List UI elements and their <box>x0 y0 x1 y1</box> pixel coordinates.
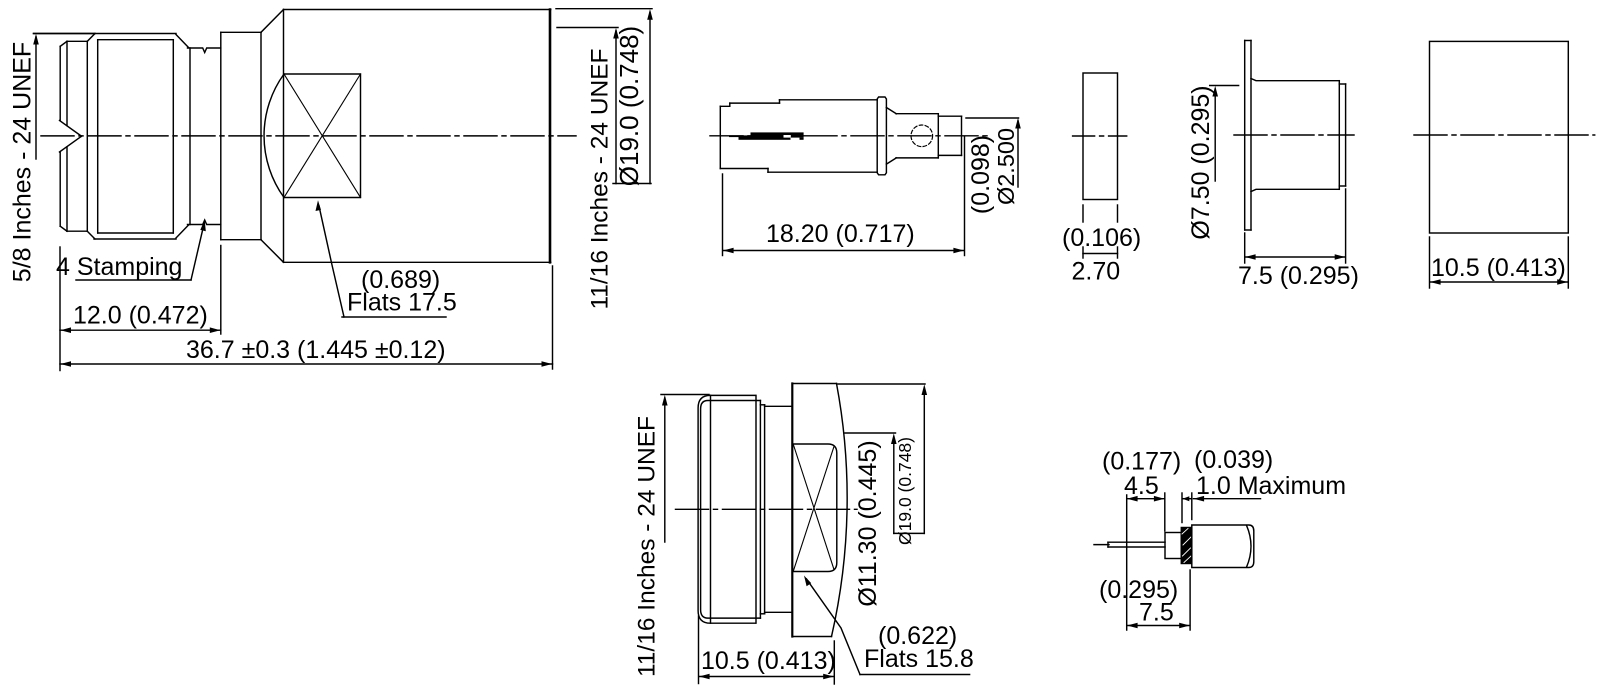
body right vertical <box>1338 81 1340 190</box>
centerline <box>1414 134 1595 136</box>
lip bottom <box>1339 185 1345 187</box>
insulator rectangle <box>1165 533 1181 559</box>
dim 7.5 extension left <box>1244 233 1246 263</box>
dim 18.20 extension right <box>964 137 966 256</box>
thread end vertical <box>172 40 174 233</box>
dim 4.5 line with arrows <box>1127 498 1165 500</box>
lip right edge <box>1345 84 1347 186</box>
lip top <box>1339 83 1345 85</box>
dim 1.0 extension left <box>1181 493 1183 523</box>
relief groove bottom with stamping notch <box>188 220 221 225</box>
flange plate left edge <box>1244 41 1246 231</box>
tip top edge <box>67 40 87 42</box>
thread start vertical 2 <box>97 40 99 233</box>
dim O7.50 extension line <box>1210 85 1239 87</box>
dim 11/16 leader vertical with up arrow <box>615 31 617 184</box>
dim 2.70 extension left upper <box>1082 205 1084 222</box>
dim 11/16 leader vertical with up arrow <box>664 398 666 542</box>
barrel top edge front <box>780 99 878 101</box>
dim 4.5 extension left (long shared) <box>1126 495 1128 630</box>
runout vertical <box>759 401 761 619</box>
tip front edge upper <box>59 46 61 120</box>
barrel bottom edge front <box>768 171 877 173</box>
dim 10.5 line with arrows <box>1430 281 1568 283</box>
flats X diagonal 2 <box>284 74 361 198</box>
dim 10.5 extension left <box>698 616 700 684</box>
svg-text:7.5 (0.295): 7.5 (0.295) <box>1238 262 1359 290</box>
tip chamfer lower-left <box>60 226 67 231</box>
center conductor end cap <box>1107 542 1109 547</box>
tip bottom <box>938 154 961 156</box>
dim O2.5 extension line <box>966 117 1019 119</box>
dim O2.5 leader vertical with up arrow <box>1017 121 1019 187</box>
hex body bottom edge <box>284 261 551 263</box>
dim 5/8 leader vertical with up arrow <box>35 37 37 159</box>
4 Stamping leader <box>191 224 204 280</box>
spanner flats arc <box>264 74 284 198</box>
step top <box>760 404 764 406</box>
centerline <box>676 508 858 510</box>
svg-text:7.5: 7.5 <box>1139 599 1174 627</box>
mid/tip junction vertical <box>937 114 939 158</box>
dim O19.0 leader vertical with up arrow <box>923 388 925 534</box>
dim 12.0 line with arrows <box>60 329 221 331</box>
spanner flats box (rounded right corners) <box>793 444 837 572</box>
barrel bottom edge rear <box>720 168 768 170</box>
dim 10.5 extension left <box>1429 237 1431 288</box>
svg-text:(0.098): (0.098) <box>967 135 995 214</box>
svg-text:10.5 (0.413): 10.5 (0.413) <box>1431 254 1566 282</box>
relief bottom <box>765 611 792 613</box>
hex body top edge <box>792 383 836 385</box>
svg-text:Ø11.30 (0.445): Ø11.30 (0.445) <box>854 440 882 606</box>
dim 12.0 extension right <box>220 246 222 335</box>
dim 2.70 line <box>1083 253 1118 255</box>
Flats leader <box>319 206 344 317</box>
dim O19 extension line <box>556 8 652 10</box>
V-notch lower diagonal <box>60 136 82 152</box>
dim O7.50 leader vertical with up arrow <box>1214 89 1216 181</box>
braid crimp zone (hatched) <box>1181 528 1192 564</box>
dim 2.70 extension left lower <box>1082 247 1084 258</box>
dim 1.0 inner arrow <box>1183 498 1192 500</box>
dim 36.7 extension right <box>552 266 554 369</box>
svg-text:36.7 ±0.3 (1.445 ±0.12): 36.7 ±0.3 (1.445 ±0.12) <box>186 336 446 364</box>
svg-text:4 Stamping: 4 Stamping <box>56 253 182 281</box>
centerline stub <box>1094 544 1109 546</box>
svg-text:1.0 Maximum: 1.0 Maximum <box>1196 472 1346 500</box>
cross-hole circle (dashed) <box>911 125 933 147</box>
dim 1.0 extension right <box>1191 493 1193 520</box>
svg-text:Flats 17.5: Flats 17.5 <box>347 289 457 317</box>
dim 10.5 extension right <box>833 641 835 684</box>
hex body top edge <box>284 9 551 11</box>
thread crest bottom line <box>94 238 176 240</box>
thread runout chamfer bottom <box>176 225 189 238</box>
dim 2.70 extension right upper <box>1117 205 1119 222</box>
thread start vertical 1 <box>86 41 88 231</box>
thread root top line <box>98 39 174 41</box>
flange left vertical <box>220 32 222 239</box>
groove left vertical <box>189 48 191 225</box>
V-notch upper diagonal <box>60 121 82 137</box>
svg-text:(0.039): (0.039) <box>1194 446 1273 474</box>
cable jacket <box>1192 525 1254 568</box>
dim 7.5 line with arrows <box>1245 256 1345 258</box>
dim 36.7 line with arrows <box>60 363 553 365</box>
relief groove top with stamping notch <box>188 48 221 53</box>
dim O19.0 extension line <box>838 383 925 385</box>
thread crest top line <box>34 33 177 35</box>
flange bottom edge <box>221 239 261 241</box>
relief top <box>765 405 792 407</box>
dim 1.0 outer leader with arrow <box>1194 498 1261 500</box>
body top edge <box>1251 79 1339 81</box>
barrel top edge rear <box>730 102 780 104</box>
svg-text:18.20 (0.717): 18.20 (0.717) <box>766 220 915 248</box>
flange plate bottom <box>1245 229 1251 231</box>
barrel step top <box>779 100 781 103</box>
flange right vertical <box>260 32 262 239</box>
flange top edge <box>221 31 261 33</box>
leader underline <box>613 183 651 185</box>
center conductor top <box>1108 541 1165 543</box>
dim 4.5 extension right <box>1164 493 1166 531</box>
svg-text:Ø2.500: Ø2.500 <box>993 128 1019 205</box>
dim 7.5 line with arrows <box>1127 625 1190 627</box>
thread start vertical <box>710 395 712 623</box>
dim O11.30 leader vertical with up arrow <box>893 437 895 534</box>
thread outer outline (rounded left) <box>698 395 755 623</box>
svg-text:4.5: 4.5 <box>1124 472 1159 500</box>
barrel top-left jog <box>720 103 730 106</box>
centerline <box>1234 134 1354 136</box>
thread runout chamfer top <box>176 35 189 48</box>
tip inner vertical lower <box>66 147 68 231</box>
tip chamfer upper-right <box>87 34 95 42</box>
body chamfer bottom <box>261 240 284 263</box>
flange disk <box>877 97 886 175</box>
tip bottom edge <box>67 230 87 232</box>
step bottom <box>760 613 764 615</box>
jacket end dome line <box>1247 525 1252 567</box>
dim O11.30 extension line <box>845 432 896 434</box>
dim 18.20 extension left <box>722 174 724 256</box>
tip top <box>938 115 961 117</box>
hex body left vertical <box>283 10 285 263</box>
dim 7.5 extension right <box>1189 570 1191 630</box>
flats X diagonal 1 <box>794 445 835 570</box>
dim 10.5 line with arrows <box>699 676 834 678</box>
dim 18.20 line with arrows <box>723 250 964 252</box>
spanner flats box <box>284 74 361 198</box>
dim 11/16 extension line top <box>661 394 709 396</box>
centerline <box>710 135 988 137</box>
hex body right arc <box>832 384 848 637</box>
Flats leader <box>807 579 861 675</box>
Flats underline <box>342 316 446 318</box>
svg-text:Ø19.0 (0.748): Ø19.0 (0.748) <box>614 26 644 186</box>
dim 7.5 extension right <box>1345 189 1347 263</box>
cone top <box>886 108 896 114</box>
svg-text:Ø7.50 (0.295): Ø7.50 (0.295) <box>1187 85 1215 239</box>
flange plate top <box>1245 40 1251 42</box>
flange plate right edge <box>1250 41 1252 231</box>
flats X diagonal 2 <box>794 447 835 571</box>
collet slot <box>729 132 804 139</box>
svg-text:2.70: 2.70 <box>1072 258 1121 286</box>
svg-text:10.5 (0.413): 10.5 (0.413) <box>701 647 836 675</box>
dim 11/16 extension line <box>557 27 618 29</box>
thread root bottom line <box>98 232 174 234</box>
hex body right edge (thick) <box>549 10 552 263</box>
svg-text:Ø19.0 (0.748): Ø19.0 (0.748) <box>895 437 915 545</box>
hex body left edge (thick) <box>791 384 793 637</box>
svg-text:11/16 Inches - 24 UNEF: 11/16 Inches - 24 UNEF <box>587 48 614 309</box>
svg-text:Flats 15.8: Flats 15.8 <box>864 645 974 673</box>
dim 12.0 extension left <box>59 247 61 371</box>
step vertical <box>764 405 766 614</box>
dim O19 leader vertical with up arrow <box>649 13 651 184</box>
body bottom edge <box>1251 189 1339 191</box>
centerline <box>41 135 576 137</box>
cone bottom <box>886 158 896 164</box>
centerline <box>1073 135 1127 137</box>
tip inner vertical upper <box>66 41 68 125</box>
leader underline <box>894 532 925 534</box>
bead outline <box>1083 73 1118 200</box>
svg-text:11/16 Inches - 24 UNEF: 11/16 Inches - 24 UNEF <box>634 416 661 677</box>
tip chamfer lower-right <box>87 231 95 239</box>
mid section top <box>896 113 938 115</box>
tip front edge lower <box>59 152 61 226</box>
mid section bottom <box>896 157 938 159</box>
tip chamfer upper-left <box>60 41 67 46</box>
hex body bottom edge <box>792 636 831 638</box>
dim 2.70 extension right lower <box>1117 247 1119 258</box>
barrel step bottom <box>767 169 769 173</box>
center conductor bottom <box>1108 546 1165 548</box>
thread root outline (rounded left) <box>701 401 761 619</box>
dim 5/8 extension line top <box>34 33 96 35</box>
flats X diagonal 1 <box>284 74 361 198</box>
thread end vertical <box>755 395 757 623</box>
tip right edge <box>961 116 963 155</box>
4 Stamping underline <box>76 279 191 281</box>
dim 10.5 extension right <box>1567 237 1569 288</box>
body chamfer top <box>261 10 284 33</box>
Flats underline <box>860 674 970 676</box>
sleeve outline <box>1430 41 1569 233</box>
svg-text:5/8 Inches - 24 UNEF: 5/8 Inches - 24 UNEF <box>9 42 37 282</box>
svg-text:12.0 (0.472): 12.0 (0.472) <box>73 302 208 330</box>
barrel left edge <box>719 106 721 168</box>
svg-text:(0.106): (0.106) <box>1062 224 1141 252</box>
